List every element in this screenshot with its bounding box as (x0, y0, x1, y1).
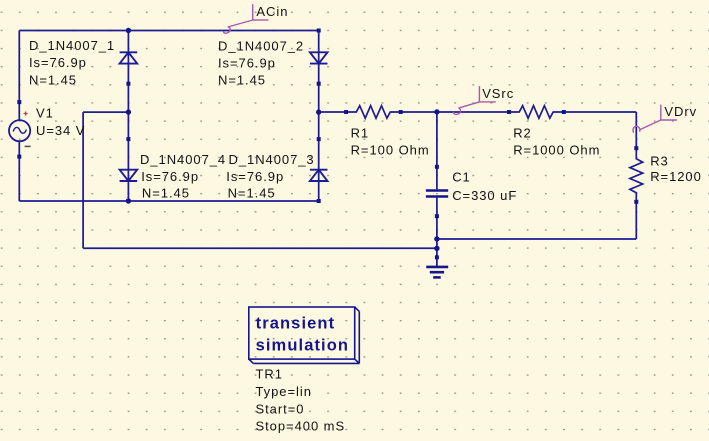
svg-text:D_1N4007_1: D_1N4007_1 (29, 38, 115, 53)
svg-text:D_1N4007_4: D_1N4007_4 (140, 152, 226, 167)
svg-text:R1: R1 (351, 126, 370, 141)
svg-text:R=100 Ohm: R=100 Ohm (351, 143, 430, 158)
svg-text:C=330 uF: C=330 uF (452, 188, 517, 203)
svg-text:Is=76.9p: Is=76.9p (29, 55, 87, 70)
svg-text:N=1.45: N=1.45 (218, 73, 266, 88)
svg-text:ACin: ACin (256, 4, 288, 19)
svg-text:TR1: TR1 (256, 367, 283, 382)
svg-text:Start=0: Start=0 (256, 401, 305, 416)
svg-text:Is=76.9p: Is=76.9p (218, 56, 276, 71)
svg-text:U=34 V: U=34 V (36, 123, 85, 138)
svg-text:Type=lin: Type=lin (256, 384, 312, 399)
svg-text:N=1.45: N=1.45 (228, 186, 276, 201)
svg-text:C1: C1 (452, 169, 471, 184)
svg-text:Is=76.9p: Is=76.9p (141, 169, 199, 184)
svg-text:VSrc: VSrc (482, 86, 514, 101)
svg-text:Stop=400 mS: Stop=400 mS (256, 419, 346, 434)
svg-text:VDrv: VDrv (664, 104, 697, 119)
svg-text:V1: V1 (36, 105, 54, 120)
svg-text:R=1200: R=1200 (650, 169, 702, 184)
svg-text:R3: R3 (650, 154, 669, 169)
svg-text:N=1.45: N=1.45 (29, 72, 77, 87)
svg-text:R2: R2 (513, 126, 532, 141)
svg-text:transient: transient (256, 314, 336, 332)
svg-text:Is=76.9p: Is=76.9p (226, 169, 284, 184)
svg-text:N=1.45: N=1.45 (142, 186, 190, 201)
svg-text:D_1N4007_2: D_1N4007_2 (218, 39, 304, 54)
svg-text:R=1000 Ohm: R=1000 Ohm (513, 143, 600, 158)
svg-text:simulation: simulation (256, 337, 350, 355)
svg-text:D_1N4007_3: D_1N4007_3 (229, 152, 315, 167)
